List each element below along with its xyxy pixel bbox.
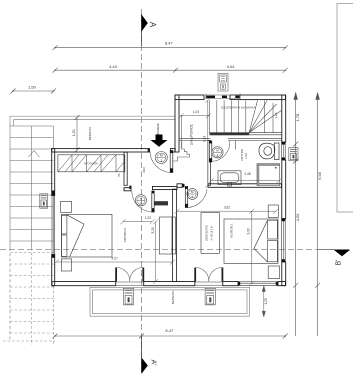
desk bedroom1 xyxy=(201,213,219,254)
svg-text:1,20: 1,20 xyxy=(72,130,76,137)
window tag above top window xyxy=(218,73,228,91)
hall left wall xyxy=(124,152,127,185)
svg-text:1,28: 1,28 xyxy=(274,112,278,118)
wall mid horizontal segments xyxy=(124,184,282,191)
wall top (stair section) xyxy=(175,95,286,100)
dim 3.13 corridor xyxy=(205,98,210,188)
veranda bottom boundary xyxy=(90,287,250,316)
dimension 4.43 / 4.04 xyxy=(53,68,288,73)
wash basin xyxy=(218,171,241,186)
stair bottom edge xyxy=(210,133,282,135)
dim 2.48 xyxy=(209,178,282,183)
neighbouring building outline far right xyxy=(337,4,353,213)
bathroom door leaf xyxy=(209,141,212,162)
wardrobe top with hatch xyxy=(58,155,125,172)
french door 1 leaves xyxy=(115,268,144,286)
dimension 8.47 top xyxy=(53,45,288,50)
bedroom1 bottom window xyxy=(238,282,278,286)
wall bottom segments xyxy=(52,282,286,286)
svg-text:A': A' xyxy=(150,359,157,365)
svg-text:ΧΩΛ: ΧΩΛ xyxy=(142,167,146,173)
svg-text:1,78: 1,78 xyxy=(295,113,300,122)
entrance jamb mark xyxy=(148,148,150,152)
bedroom1 door leaf xyxy=(185,187,187,208)
svg-text:4,04: 4,04 xyxy=(227,64,236,69)
svg-text:4,43: 4,43 xyxy=(109,64,118,69)
french door 2 leaves xyxy=(194,268,223,286)
svg-text:1,50: 1,50 xyxy=(28,85,37,90)
dim 4.27 xyxy=(54,260,175,265)
svg-text:B': B' xyxy=(335,259,342,265)
nightstand 1b xyxy=(268,266,279,279)
hall top door tag xyxy=(155,152,167,164)
bath/landing edge double line xyxy=(179,138,282,140)
bed 2 xyxy=(62,214,113,257)
dim 1.03 xyxy=(179,113,211,118)
section marker A' bottom xyxy=(142,336,157,374)
svg-text:1,03: 1,03 xyxy=(193,110,199,114)
dim 3.33 xyxy=(249,209,254,286)
stair landing dark edge xyxy=(210,133,250,136)
wall top-left section (entrance wall) xyxy=(52,149,176,152)
svg-text:8,47: 8,47 xyxy=(165,41,174,46)
tag bath window xyxy=(289,148,298,161)
svg-text:Ε= 50,15 Τ.Μ.: Ε= 50,15 Τ.Μ. xyxy=(211,225,214,240)
svg-text:4,50: 4,50 xyxy=(295,213,300,222)
section marker A top xyxy=(142,14,157,46)
exterior stair treads dashed (below section) xyxy=(3,248,55,345)
wardrobe right bedroom2 xyxy=(160,217,176,254)
svg-text:6,98: 6,98 xyxy=(317,171,322,180)
section line B (horizontal dash) xyxy=(0,248,350,250)
svg-text:Μ: Μ xyxy=(160,154,163,158)
nightstand 1a xyxy=(268,205,278,218)
svg-text:ΒΕΡΑΝΤΑ: ΒΕΡΑΝΤΑ xyxy=(88,127,92,141)
svg-text:.55: .55 xyxy=(117,173,121,177)
svg-text:2,48: 2,48 xyxy=(244,172,250,176)
bedroom1 door arc xyxy=(188,189,207,207)
nightstand 2b xyxy=(61,259,71,271)
partition mark bath xyxy=(235,141,237,150)
shower tray xyxy=(257,164,280,186)
toilet xyxy=(259,143,279,160)
svg-text:ΕΣΩΤΕΡΙΚΗ ΚΛΙΜΑΚΑ: ΕΣΩΤΕΡΙΚΗ ΚΛΙΜΑΚΑ xyxy=(221,105,255,109)
dim 3.20 xyxy=(153,219,158,284)
svg-text:1,94: 1,94 xyxy=(244,153,248,159)
svg-text:3,33: 3,33 xyxy=(246,228,250,234)
bedroom1 window right wall xyxy=(281,219,285,263)
nightstand 2a xyxy=(61,201,72,212)
wall right xyxy=(282,95,286,286)
svg-text:1,20: 1,20 xyxy=(264,298,268,304)
hall bottom door jamb xyxy=(129,186,131,189)
svg-text:1,02: 1,02 xyxy=(145,216,151,220)
svg-text:A: A xyxy=(148,22,157,28)
dim 1.02 xyxy=(120,219,154,224)
svg-text:3,20: 3,20 xyxy=(151,227,155,233)
svg-text:1: 1 xyxy=(160,158,162,162)
veranda depth dim 1.20 xyxy=(75,115,80,153)
hall bottom door arc xyxy=(132,191,153,212)
window W in top wall xyxy=(206,94,240,100)
svg-text:8,47: 8,47 xyxy=(165,328,174,333)
tag french door 2 xyxy=(205,288,215,305)
svg-text:ΚΟΙΤΩΝ 1: ΚΟΙΤΩΝ 1 xyxy=(230,223,234,237)
stair treads xyxy=(210,100,274,133)
exterior stair left: treads solid xyxy=(10,126,54,241)
section line A (vertical dash) xyxy=(141,9,143,358)
tag bedroom2 window xyxy=(40,194,48,208)
hall bottom door tag xyxy=(135,195,146,206)
svg-text:ΩΦΕΛ.ΧΩΡΟΣ: ΩΦΕΛ.ΧΩΡΟΣ xyxy=(206,225,209,241)
dimension 1.50 top-left xyxy=(11,89,57,94)
dim 3.62 xyxy=(175,209,279,214)
svg-text:ΝΤΟΥΛΑΠΑ: ΝΤΟΥΛΑΠΑ xyxy=(84,162,98,165)
svg-text:3,62: 3,62 xyxy=(224,206,230,210)
tag french door 1 xyxy=(123,288,133,305)
section marker B' xyxy=(334,250,350,266)
svg-text:ΔΙΑΔΡΟΜΟΣ: ΔΙΑΔΡΟΜΟΣ xyxy=(189,124,193,145)
wall stub below hall door xyxy=(153,201,169,205)
bed 1 xyxy=(224,219,278,263)
bathroom left wall xyxy=(208,141,211,186)
dimension 8.47 bottom xyxy=(53,334,288,339)
entrance steps xyxy=(173,142,189,162)
stair up mark xyxy=(29,151,40,158)
hall bottom door leaf xyxy=(152,191,154,212)
bath window right wall xyxy=(281,142,285,160)
svg-text:ΚΟΙΤΩΝ 2: ΚΟΙΤΩΝ 2 xyxy=(123,228,127,242)
bedroom divider wall xyxy=(173,189,177,281)
svg-text:3,13: 3,13 xyxy=(203,136,207,142)
bedroom2 window left wall xyxy=(52,191,55,258)
right vertical dimension line 6.98 xyxy=(315,93,320,336)
svg-text:ΒΕΡΑΝΤΑ: ΒΕΡΑΝΤΑ xyxy=(171,291,175,305)
hall top door leaf xyxy=(170,151,173,173)
veranda top boundary xyxy=(10,116,175,341)
wall left xyxy=(52,149,55,286)
wall stair-section left xyxy=(175,95,179,152)
svg-text:4,27: 4,27 xyxy=(111,257,117,261)
exterior stair rails xyxy=(32,126,54,248)
stair winder fan xyxy=(249,100,281,132)
bedroom1 door tag xyxy=(187,189,198,200)
bathroom door tag xyxy=(212,147,223,158)
hall top door arc xyxy=(150,151,172,173)
bathroom door arc xyxy=(212,141,230,162)
dim 1.20 veranda bottom xyxy=(262,286,265,317)
right vertical dimension line 1.78 / 4.50 xyxy=(293,93,298,336)
